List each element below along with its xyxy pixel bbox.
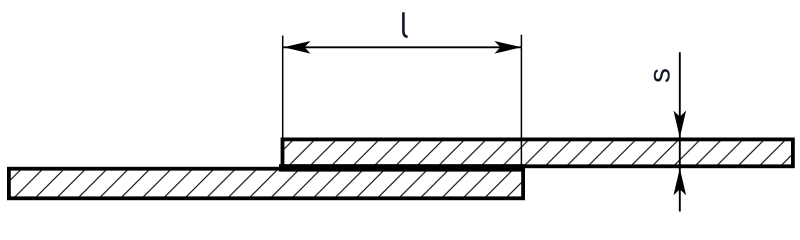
svg-text:s: s bbox=[643, 68, 676, 83]
